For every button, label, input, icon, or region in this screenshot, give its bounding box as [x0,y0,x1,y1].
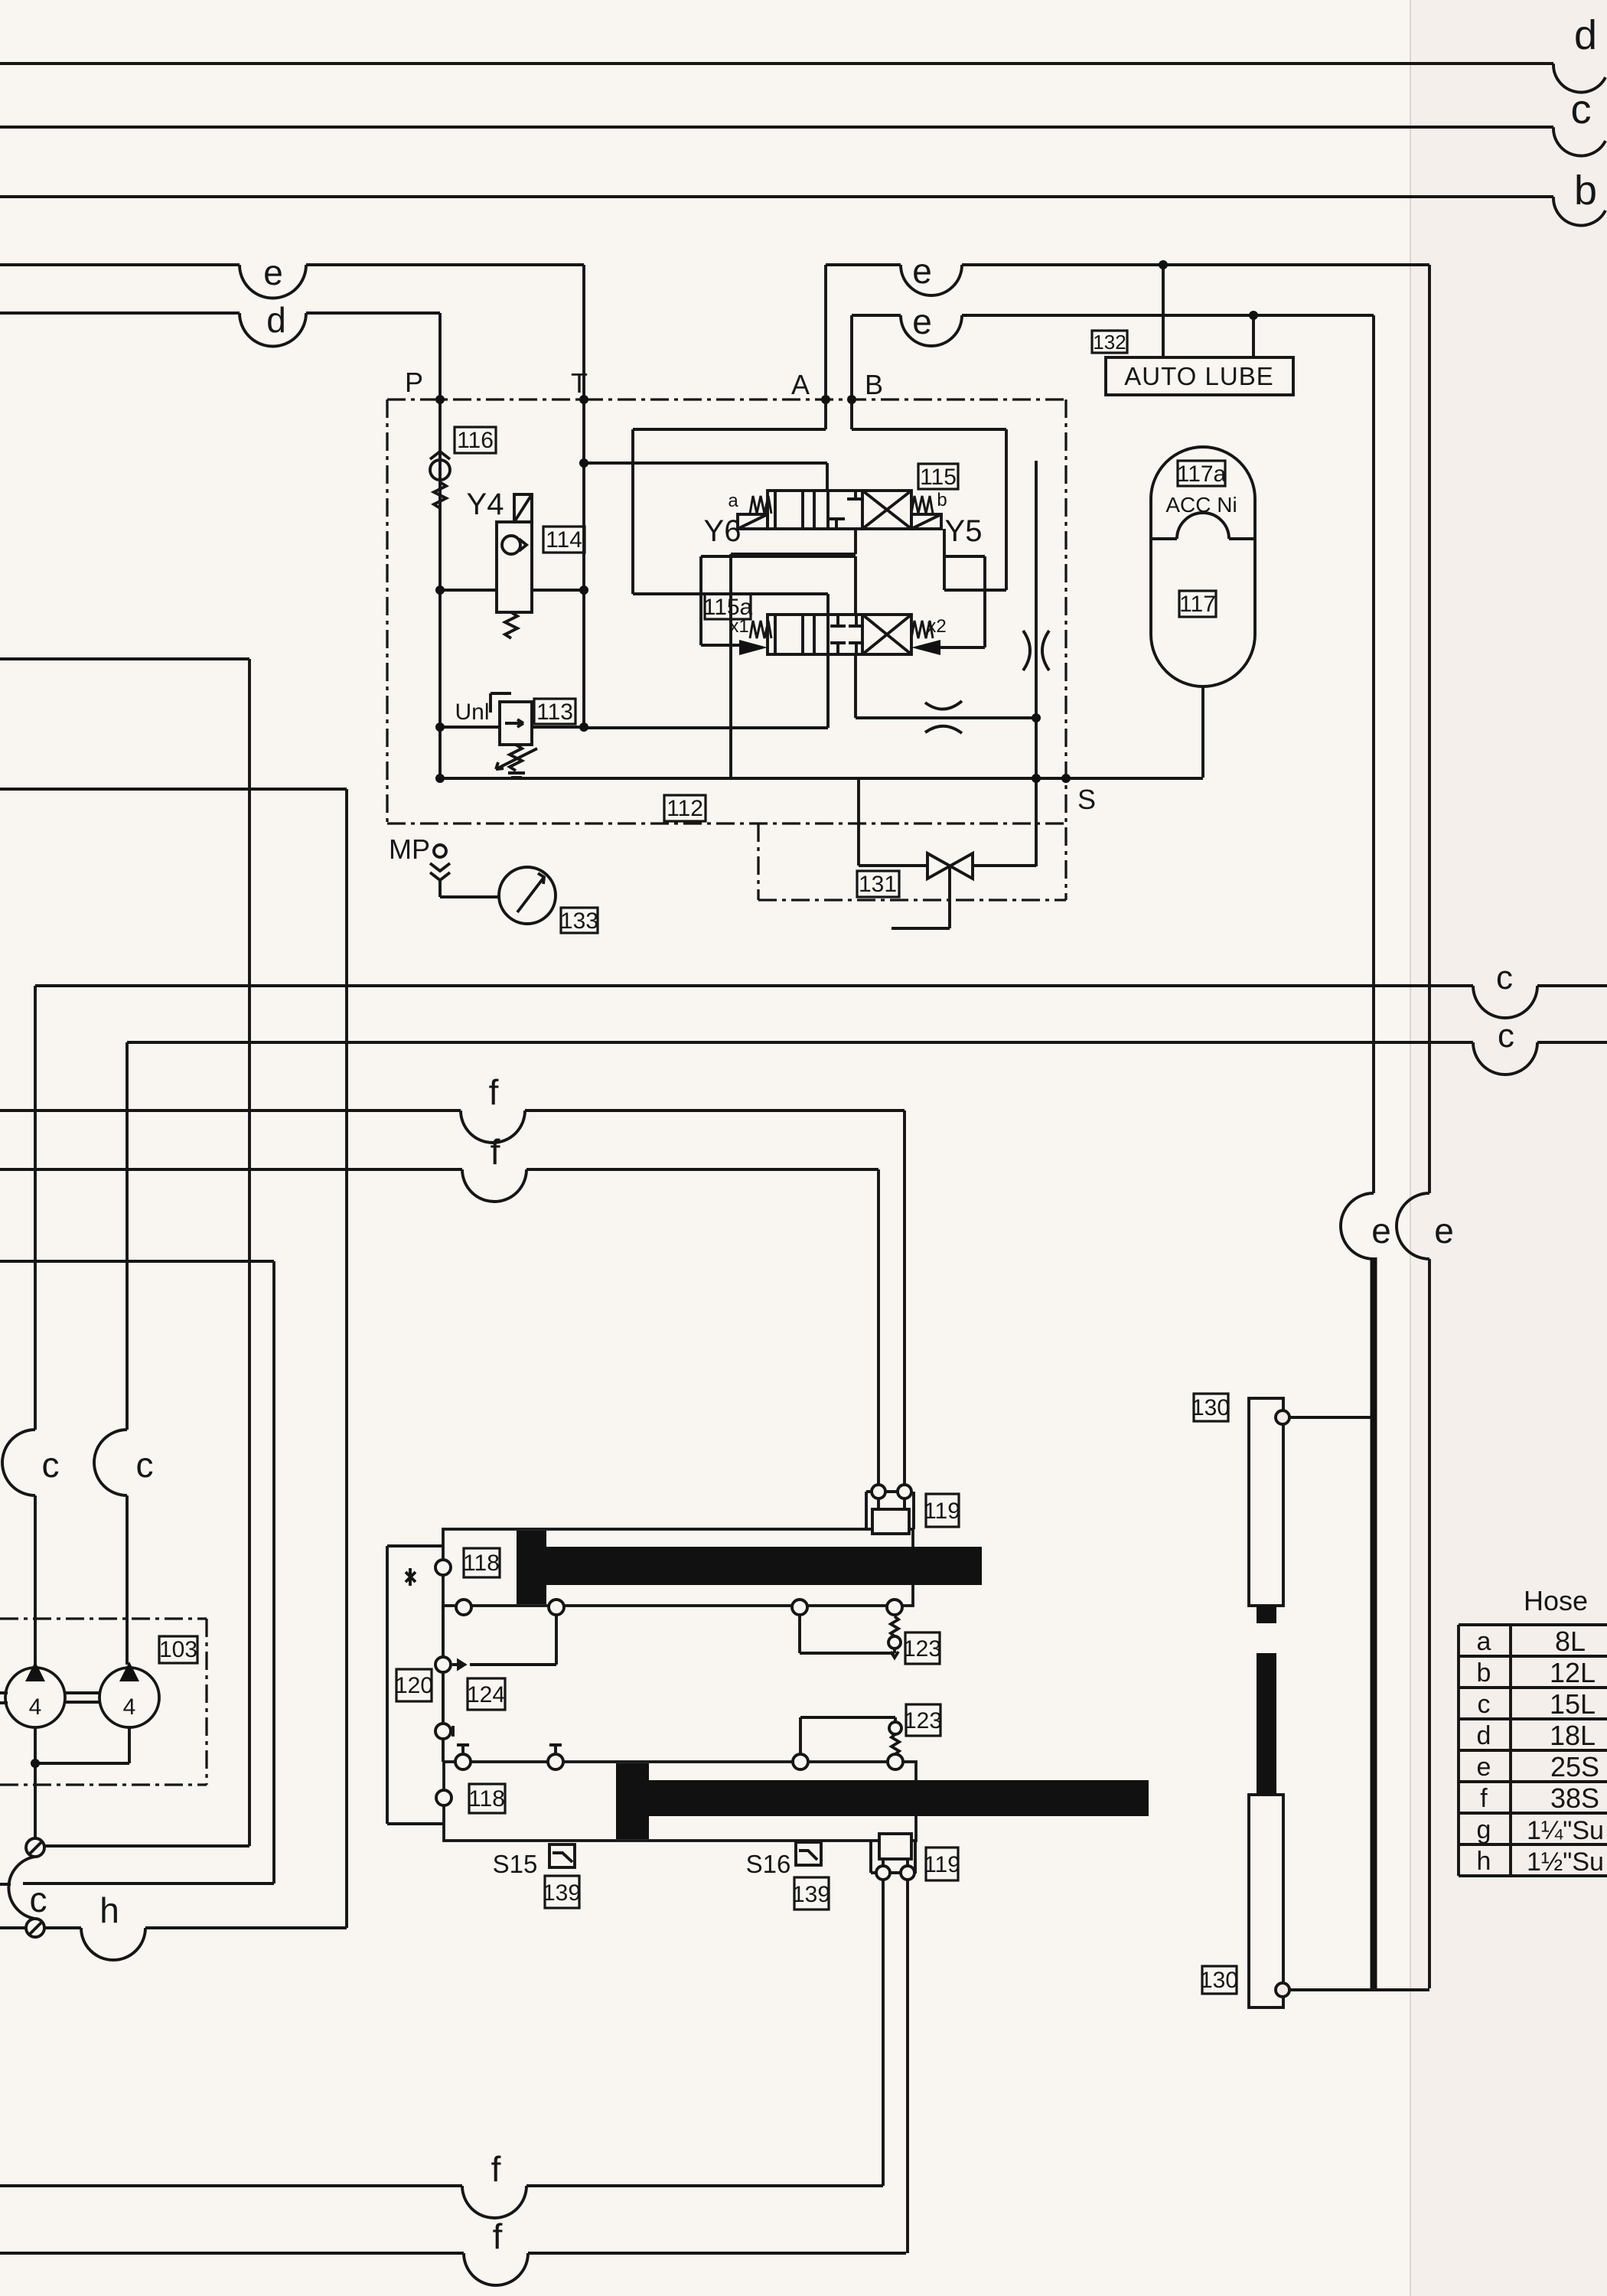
svg-text:117: 117 [1179,592,1216,617]
svg-text:25S: 25S [1550,1751,1599,1782]
svg-text:118: 118 [463,1551,500,1576]
svg-text:MP: MP [389,833,430,865]
svg-text:38S: 38S [1550,1782,1599,1814]
svg-text:d: d [1477,1721,1491,1750]
svg-text:e: e [1371,1211,1391,1251]
svg-text:139: 139 [792,1882,830,1907]
svg-text:1½"Su: 1½"Su [1527,1848,1604,1877]
svg-text:133: 133 [560,908,598,934]
svg-text:116: 116 [457,428,494,453]
svg-text:112: 112 [667,796,703,821]
svg-text:Y6: Y6 [704,514,742,548]
svg-text:12L: 12L [1550,1657,1596,1688]
svg-text:P: P [405,367,423,398]
svg-text:113: 113 [536,700,573,725]
svg-text:T: T [571,367,588,399]
svg-text:h: h [1477,1847,1491,1876]
svg-text:ACC Ni: ACC Ni [1165,493,1237,517]
svg-text:131: 131 [859,872,897,897]
svg-text:119: 119 [924,1499,960,1524]
svg-text:b: b [1477,1658,1491,1688]
svg-text:b: b [937,490,947,510]
svg-text:Unl: Unl [455,700,489,725]
svg-text:b: b [1574,168,1597,214]
svg-text:f: f [489,1072,499,1112]
svg-text:Y4: Y4 [467,488,504,521]
svg-text:103: 103 [159,1637,197,1662]
svg-text:e: e [912,302,932,341]
svg-text:h: h [99,1890,119,1930]
svg-text:114: 114 [546,527,582,553]
svg-text:124: 124 [467,1682,505,1707]
svg-text:f: f [491,1132,500,1172]
svg-text:S16: S16 [746,1850,791,1878]
svg-text:117a: 117a [1177,461,1227,487]
svg-text:118: 118 [468,1786,505,1812]
svg-text:g: g [1477,1815,1491,1844]
svg-text:Y5: Y5 [945,514,983,548]
svg-text:e: e [912,251,932,291]
svg-text:f: f [493,2216,503,2256]
svg-text:c: c [1478,1690,1491,1719]
svg-text:8L: 8L [1555,1626,1586,1657]
svg-text:115: 115 [920,465,957,490]
svg-text:d: d [1574,12,1597,58]
svg-text:S: S [1077,784,1096,815]
svg-text:c: c [1571,86,1592,132]
svg-text:B: B [865,369,883,400]
svg-text:f: f [491,2149,501,2189]
svg-text:18L: 18L [1550,1720,1596,1751]
svg-text:15L: 15L [1550,1688,1596,1720]
svg-text:a: a [1477,1627,1491,1656]
svg-text:Hose: Hose [1524,1585,1588,1616]
svg-text:c: c [136,1445,154,1485]
svg-text:120: 120 [395,1673,433,1698]
svg-text:123: 123 [904,1708,942,1733]
svg-text:x1: x1 [729,616,748,637]
svg-text:c: c [42,1445,60,1485]
svg-text:130: 130 [1200,1968,1238,1993]
svg-text:139: 139 [543,1880,581,1906]
svg-text:1¼"Su: 1¼"Su [1527,1816,1604,1845]
svg-text:c: c [1498,1017,1514,1055]
svg-text:c: c [30,1880,47,1919]
svg-text:e: e [263,253,283,292]
svg-text:130: 130 [1191,1395,1230,1420]
svg-text:AUTO LUBE: AUTO LUBE [1124,362,1273,390]
svg-text:123: 123 [903,1636,941,1662]
svg-text:e: e [1434,1211,1454,1251]
svg-text:4: 4 [29,1694,42,1720]
svg-text:a: a [728,491,738,511]
svg-text:S15: S15 [493,1850,538,1878]
svg-text:e: e [1477,1753,1491,1782]
svg-text:c: c [1496,959,1513,996]
svg-text:f: f [1480,1784,1488,1813]
svg-text:d: d [266,300,286,340]
svg-text:132: 132 [1093,331,1126,354]
svg-text:x2: x2 [927,616,946,637]
svg-text:A: A [791,369,810,400]
svg-text:4: 4 [123,1694,136,1720]
svg-text:119: 119 [924,1852,960,1877]
